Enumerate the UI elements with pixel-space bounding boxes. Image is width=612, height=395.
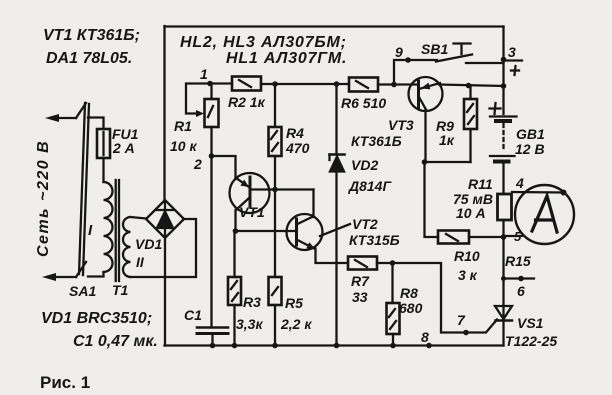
potentiometer R1	[205, 99, 219, 127]
svg-text:R11: R11	[468, 176, 493, 192]
node R4 junction	[272, 81, 278, 87]
wire R9 bottom to collector	[425, 161, 471, 163]
wire node9 riser to rail	[394, 60, 437, 85]
bridge rectifier VD1	[146, 200, 184, 238]
svg-text:10 А: 10 А	[456, 205, 486, 221]
mains arrow top	[45, 114, 76, 122]
node VD2 junction	[334, 81, 340, 87]
wire R10 to main line	[469, 236, 504, 238]
node collector R9 junction	[422, 159, 428, 165]
note text HL lamps	[180, 34, 347, 67]
svg-text:12 В: 12 В	[515, 141, 545, 157]
wire R2 to R6	[261, 83, 349, 85]
thyristor VS1	[495, 306, 512, 346]
svg-text:R6 510: R6 510	[341, 95, 386, 111]
node 9	[395, 44, 411, 63]
wire VT1 collector down	[234, 210, 236, 231]
svg-text:VD2: VD2	[351, 157, 378, 173]
label R1 10к	[170, 118, 197, 154]
battery GB1	[490, 61, 517, 195]
svg-text:HL2, HL3 АЛ307БМ;: HL2, HL3 АЛ307БМ;	[180, 34, 347, 51]
wire top rail	[165, 25, 504, 27]
svg-text:1: 1	[200, 66, 208, 82]
transformer T1 primary winding I	[104, 182, 113, 272]
note VD1 BRC3510	[41, 310, 158, 350]
node 6	[501, 276, 534, 299]
ammeter PA	[515, 185, 574, 244]
mains label Сеть ~220 В	[35, 140, 52, 257]
svg-text:33: 33	[352, 289, 368, 305]
label R8 680	[399, 285, 423, 316]
svg-text:R7: R7	[351, 273, 370, 289]
wire collector to R10	[425, 162, 439, 237]
svg-text:Рис. 1: Рис. 1	[40, 373, 90, 392]
wire gate run to node 7	[393, 263, 467, 333]
resistor R6	[349, 78, 378, 92]
wire bridge plus up left side	[163, 26, 165, 200]
svg-text:470: 470	[285, 140, 310, 156]
node 1	[200, 66, 213, 86]
svg-text:3 к: 3 к	[458, 267, 478, 283]
svg-text:КТ315Б: КТ315Б	[349, 232, 400, 248]
svg-text:R1: R1	[174, 118, 192, 134]
svg-text:С1: С1	[184, 307, 202, 323]
shunt R11	[498, 194, 512, 220]
svg-text:8: 8	[421, 329, 429, 345]
svg-text:HL1 АЛ307ГМ.: HL1 АЛ307ГМ.	[226, 50, 347, 67]
svg-text:Т1: Т1	[112, 282, 129, 298]
label R10 3к	[454, 248, 480, 283]
node 8	[421, 329, 432, 348]
wire R11 to node	[502, 220, 504, 237]
resistor R2	[232, 77, 261, 91]
svg-text:R10: R10	[454, 248, 480, 264]
svg-text:9: 9	[395, 44, 403, 60]
svg-text:VT2: VT2	[352, 216, 378, 232]
node R9 top junction	[466, 83, 472, 89]
note text block top-left	[43, 27, 140, 67]
wire down to R3	[233, 231, 235, 277]
wire R5 bottom	[274, 305, 276, 346]
svg-text:3: 3	[508, 44, 516, 60]
node VT1 collector junction	[233, 228, 239, 234]
svg-text:R2 1к: R2 1к	[228, 94, 266, 110]
wire right side down to node 3	[502, 27, 504, 60]
wire node2 to VT1 emitter	[212, 156, 236, 179]
label GB1 12В	[515, 126, 545, 157]
transistor VT2	[287, 214, 323, 250]
label R11 75мВ 10А	[453, 176, 493, 221]
transistor VT1	[230, 173, 270, 213]
zener diode VD2	[330, 84, 345, 346]
switch SA1 bottom blade	[76, 262, 86, 277]
svg-text:VS1: VS1	[517, 315, 544, 331]
svg-text:SB1: SB1	[421, 41, 448, 57]
resistor R4	[269, 84, 282, 190]
wire rheostat loop of R1	[186, 84, 210, 114]
resistor R7	[348, 257, 377, 270]
wire VT2 emitter to R7	[316, 249, 349, 264]
wire node2 down to C1	[210, 156, 212, 327]
node battery top junction	[501, 83, 507, 89]
svg-text:7: 7	[457, 312, 466, 328]
wire R6 to VT3 base	[378, 83, 418, 85]
wire primary bottom to switch	[88, 272, 104, 277]
node rail/node9 junction	[391, 82, 397, 88]
wire VT1 base to VT2 collector	[250, 188, 314, 190]
svg-text:Т122-25: Т122-25	[505, 333, 557, 349]
transformer T1 secondary winding II	[123, 217, 130, 277]
wire gate to thyristor	[466, 320, 497, 333]
svg-text:VT1: VT1	[239, 204, 265, 220]
rail junction dots	[210, 343, 396, 349]
label R9 1к	[436, 118, 455, 148]
label R5 2,2к	[280, 295, 312, 332]
node 3	[501, 44, 522, 62]
label VT2 with pointer	[320, 216, 400, 248]
svg-text:680: 680	[399, 300, 423, 316]
capacitor C1	[197, 328, 228, 346]
node R10 ammeter junction	[501, 234, 507, 240]
svg-text:Д814Г: Д814Г	[348, 178, 392, 194]
label R3 3,3к	[236, 294, 263, 332]
svg-text:R3: R3	[243, 294, 261, 310]
svg-text:R5: R5	[285, 295, 303, 311]
wire bridge minus down to rail	[164, 238, 166, 346]
svg-text:2 А: 2 А	[112, 140, 135, 156]
node R7 R8 junction	[390, 260, 396, 266]
svg-text:3,3к: 3,3к	[236, 316, 263, 332]
svg-text:4: 4	[515, 175, 524, 191]
svg-text:DA1 78L05.: DA1 78L05.	[46, 50, 132, 67]
svg-text:VT1 КТ361Б;: VT1 КТ361Б;	[43, 27, 140, 44]
node 2	[193, 153, 214, 172]
node 7	[457, 312, 469, 335]
svg-text:КТ361Б: КТ361Б	[351, 133, 402, 149]
wire node1 to R2	[210, 82, 232, 84]
svg-text:1к: 1к	[439, 132, 455, 148]
label FU1 2A	[112, 126, 139, 156]
svg-text:6: 6	[517, 283, 525, 299]
resistor R5	[269, 277, 282, 305]
node ammeter terminal dot	[561, 190, 567, 196]
switch SA1 double pole lines	[79, 103, 89, 275]
wire R1 top lead	[210, 84, 212, 100]
svg-text:2,2 к: 2,2 к	[280, 316, 312, 332]
svg-text:С1 0,47 мк.: С1 0,47 мк.	[73, 333, 158, 350]
svg-text:5: 5	[514, 229, 522, 244]
node R4 bottom junction	[272, 187, 278, 193]
wire R4 node down to R5	[274, 190, 276, 278]
svg-text:VD1 BRC3510;: VD1 BRC3510;	[41, 310, 152, 327]
pushbutton SB1	[436, 44, 504, 64]
svg-text:II: II	[136, 254, 145, 270]
wire R3 bottom	[233, 305, 235, 346]
label VT3 КТ361Б	[351, 117, 414, 149]
wiper arrow of R1	[196, 110, 204, 117]
wire VT2 collector up	[312, 190, 314, 218]
svg-text:10 к: 10 к	[170, 138, 197, 154]
wire switch to fuse	[88, 118, 104, 130]
svg-text:SA1: SA1	[69, 283, 96, 299]
wire fuse to primary	[102, 158, 104, 182]
svg-text:R8: R8	[400, 285, 418, 301]
wire secondary top to bridge	[131, 217, 147, 219]
plus mark at terminal 3	[511, 66, 519, 75]
svg-text:VT3: VT3	[388, 117, 414, 133]
wire R7 to junction	[377, 262, 393, 264]
transistor VT3	[409, 77, 443, 111]
svg-text:R4: R4	[286, 125, 304, 141]
wire node to node6	[502, 237, 504, 305]
mains arrow bottom	[42, 273, 76, 281]
fuse FU1	[97, 129, 110, 158]
wire VT3 collector down	[424, 110, 426, 163]
wire secondary bottom to bridge right	[131, 219, 197, 277]
label VS1 Т122-25	[505, 315, 557, 349]
resistor R10	[438, 231, 469, 244]
svg-text:VD1: VD1	[135, 236, 162, 252]
resistor R9	[464, 86, 477, 162]
svg-text:R15: R15	[505, 253, 531, 269]
resistor R8	[387, 263, 400, 346]
svg-text:Сеть ~220 В: Сеть ~220 В	[35, 140, 52, 257]
label R4 470	[285, 125, 310, 156]
label R7 33	[351, 273, 370, 305]
label VD2 Д814Г	[348, 157, 392, 194]
resistor R3	[228, 277, 241, 305]
wire VT3 emitter rail	[439, 85, 504, 87]
wire R1 bottom lead	[210, 127, 212, 156]
switch SA1 top blade	[76, 103, 86, 118]
wire terminal 4 chord	[512, 191, 563, 194]
wire bottom rail	[165, 344, 504, 346]
wire to VT2 base	[236, 230, 297, 232]
svg-text:I: I	[88, 222, 93, 239]
svg-text:GB1: GB1	[516, 126, 545, 142]
wire ammeter bottom terminal	[504, 235, 523, 237]
transformer core	[116, 180, 119, 281]
svg-text:2: 2	[193, 156, 202, 172]
